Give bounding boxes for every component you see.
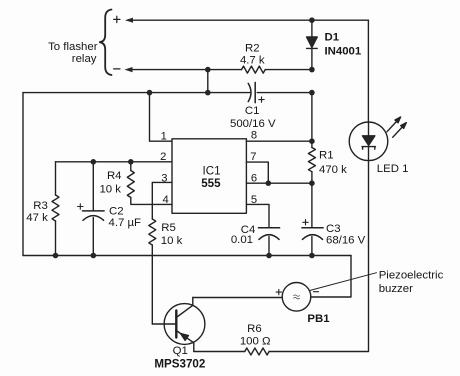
plus terminal label — [114, 16, 120, 22]
svg-text:C1: C1 — [245, 105, 260, 117]
wire: tap from - rail down to C1 line — [207, 70, 209, 93]
wire: LED column down to R6 line — [269, 161, 368, 352]
svg-text:LED 1: LED 1 — [377, 163, 409, 175]
svg-text:MPS3702: MPS3702 — [154, 357, 205, 370]
svg-text:D1: D1 — [325, 31, 340, 43]
capacitor C2 — [78, 162, 105, 256]
svg-text:To flasher: To flasher — [48, 41, 98, 53]
label R3 47k — [26, 200, 48, 224]
svg-text:R5: R5 — [161, 222, 176, 234]
arrowhead on + rail — [125, 18, 133, 23]
label R1 470k — [319, 149, 347, 176]
capacitor C4 — [258, 228, 279, 256]
svg-text:Q1: Q1 — [173, 345, 188, 357]
label C3 68/16 V — [326, 223, 366, 247]
pointer line to buzzer label — [309, 273, 376, 291]
svg-text:R2: R2 — [245, 43, 260, 55]
wire: - supply rail — [131, 69, 312, 71]
diode D1 — [307, 20, 318, 69]
wire: right drop to buzzer + terminal — [311, 256, 351, 298]
svg-text:1: 1 — [161, 130, 167, 142]
svg-text:R4: R4 — [107, 170, 122, 182]
svg-text:10 k: 10 k — [99, 183, 121, 195]
label Q1 MPS3702 — [154, 345, 205, 370]
svg-text:8: 8 — [251, 130, 257, 142]
minus terminal label — [114, 68, 120, 70]
wire: pin 2 rail — [56, 161, 173, 163]
svg-text:buzzer: buzzer — [379, 283, 413, 295]
node: junction pin7 / pin6 — [266, 180, 272, 186]
wire: + supply rail — [131, 19, 368, 21]
wire: pin 7 connection — [246, 162, 268, 183]
resistor R1 — [308, 93, 315, 228]
brace for flasher relay terminals — [100, 10, 112, 76]
svg-text:PB1: PB1 — [307, 313, 330, 325]
label R4 10k — [99, 170, 121, 195]
node: junction C1 line / pin1 drop — [147, 90, 153, 96]
IC1 555 box — [172, 139, 246, 214]
capacitor C3 — [302, 220, 323, 256]
node: junction C2 / ground line — [91, 253, 97, 259]
LED 1 — [349, 20, 406, 160]
svg-text:IC1: IC1 — [202, 164, 220, 177]
label Piezoelectric buzzer — [379, 270, 444, 295]
label: To flasher relay — [48, 41, 98, 65]
transistor Q1 — [152, 298, 205, 352]
svg-text:7: 7 — [250, 151, 256, 163]
svg-text:0.01: 0.01 — [231, 234, 253, 246]
svg-text:Piezoelectric: Piezoelectric — [379, 270, 444, 282]
svg-text:C3: C3 — [326, 223, 341, 235]
resistor R2 — [242, 66, 266, 73]
svg-text:555: 555 — [201, 177, 221, 190]
wire: pin 6 connection — [246, 182, 312, 184]
svg-text:10 k: 10 k — [161, 235, 183, 247]
wire: horizontal line y=92.6 with C1 in series — [23, 92, 312, 94]
svg-text:4.7 k: 4.7 k — [240, 55, 265, 67]
svg-text:100 Ω: 100 Ω — [240, 335, 271, 347]
wire: left outer vertical — [22, 93, 24, 256]
node: junction - rail / D1 cathode — [309, 67, 315, 73]
svg-text:2: 2 — [160, 151, 166, 163]
node: junction pin8 / R1 column — [309, 138, 315, 144]
label C4 0.01 — [231, 224, 255, 246]
node: junction R3 / ground line — [53, 253, 59, 259]
node: junction pin2 / C2 — [91, 159, 97, 165]
node: junction pin6 / R1 column — [309, 180, 315, 186]
wire: collector to buzzer + — [193, 297, 282, 299]
node: junction C3 / ground line — [309, 253, 315, 259]
wire: pin 3 connection — [152, 182, 172, 204]
label IC1 555 — [201, 164, 221, 190]
svg-text:470 k: 470 k — [319, 164, 347, 176]
svg-text:relay: relay — [72, 53, 97, 65]
label C2 4.7uF — [109, 205, 142, 229]
resistor R3 — [52, 162, 59, 256]
svg-text:R3: R3 — [33, 200, 48, 212]
svg-text:68/16 V: 68/16 V — [326, 235, 366, 247]
node: junction pin2 / R4 — [128, 159, 134, 165]
resistor R4 — [127, 162, 152, 205]
piezo buzzer PB1 — [276, 283, 319, 312]
resistor R6 — [194, 348, 269, 355]
node: junction C4 / ground line — [266, 253, 272, 259]
capacitor C1 — [248, 82, 264, 102]
node: junction C1 line / - tap — [205, 90, 211, 96]
wire: bottom ground line — [23, 255, 351, 257]
arrowhead on - rail — [125, 67, 133, 72]
wire: pin 1 connection — [150, 93, 173, 142]
wire: pin 5 connection — [246, 204, 269, 227]
svg-text:47 k: 47 k — [26, 212, 48, 224]
svg-text:IN4001: IN4001 — [325, 46, 362, 58]
svg-text:R1: R1 — [319, 149, 334, 161]
wire: pin 4 connection — [152, 203, 172, 205]
label C1 500/16 V — [230, 105, 276, 130]
svg-text:500/16 V: 500/16 V — [230, 118, 276, 130]
svg-text:4.7 µF: 4.7 µF — [109, 217, 142, 229]
node: junction C1 line / D1 column — [309, 90, 315, 96]
svg-text:C2: C2 — [109, 205, 124, 217]
node: junction + rail / D1 — [309, 17, 315, 23]
label R2 4.7k — [240, 43, 265, 67]
svg-text:R6: R6 — [247, 323, 262, 335]
label R6 100 ohm — [240, 323, 271, 347]
node: junction - rail tap — [205, 67, 211, 73]
wire: pin 8 connection — [246, 140, 312, 142]
resistor R5 — [149, 204, 156, 324]
label D1 IN4001 — [325, 31, 362, 57]
label R5 10k — [161, 222, 183, 247]
